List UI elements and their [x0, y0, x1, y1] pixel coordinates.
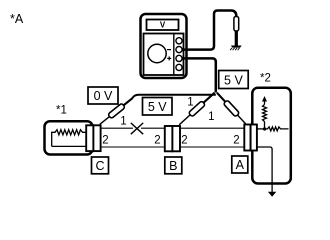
svg-text:*1: *1: [56, 105, 67, 117]
svg-text:0 V: 0 V: [94, 89, 113, 103]
wire negative lead from terminal 2 to top-right probe: [182, 11, 236, 50]
wire A pin 2 to ground: [257, 147, 272, 192]
wire A pin 1 to junction: [257, 128, 265, 130]
connector label C box: [92, 157, 109, 174]
connector A: [244, 125, 250, 151]
probe P1 at body ground: [234, 17, 239, 32]
svg-text:V: V: [160, 20, 166, 29]
multimeter panel: [144, 34, 184, 76]
wire B-A pin 1: [181, 127, 245, 129]
wire B-A pin 2: [181, 146, 245, 148]
probe P4 at A pin 1: [217, 93, 235, 113]
svg-text:5 V: 5 V: [148, 100, 167, 114]
plus sign: [167, 57, 171, 59]
multimeter terminal 4: [176, 64, 182, 70]
multimeter terminal 1: [176, 38, 182, 44]
0 V label box: [88, 87, 118, 104]
junction node: [263, 127, 266, 130]
multimeter terminal 3: [176, 55, 182, 61]
multimeter dial: [148, 44, 166, 62]
svg-text:2: 2: [181, 135, 187, 147]
power feed arrow up in *2: [264, 101, 266, 105]
multimeter display: [147, 20, 179, 31]
ground arrow: [268, 192, 276, 197]
svg-text:1: 1: [120, 116, 126, 128]
multimeter U1 body: [141, 14, 187, 78]
svg-text:2: 2: [102, 135, 108, 147]
minus sign: [167, 49, 171, 51]
resistor R1 in *1: [52, 130, 87, 147]
component *2 box: [252, 88, 290, 184]
svg-text:2: 2: [154, 135, 160, 147]
resistor R2 vertical in *2: [263, 105, 267, 122]
probe P3 at B pin 1: [193, 93, 215, 113]
connector B: [165, 126, 173, 151]
5 V label box near B: [143, 98, 173, 116]
svg-text:*2: *2: [260, 73, 271, 85]
svg-text:2: 2: [233, 135, 239, 147]
open-circuit X mark: [131, 123, 143, 134]
resistor R3 horizontal in *2: [265, 127, 289, 131]
connector C: [86, 125, 93, 151]
svg-text:A: A: [236, 158, 245, 172]
svg-text:1: 1: [208, 111, 214, 123]
component *1 box: [45, 121, 93, 154]
wire positive lead from terminal 3 down to junction: [182, 58, 216, 92]
svg-text:C: C: [95, 159, 104, 173]
wire junction to C probe: [132, 95, 216, 99]
body ground symbol: [231, 46, 242, 48]
connector label A box: [232, 156, 248, 173]
wire C-B pin 1 (broken): [101, 127, 133, 129]
svg-text:*A: *A: [10, 12, 24, 26]
probe P2 at C pin 1: [112, 99, 132, 115]
svg-text:B: B: [169, 159, 177, 173]
wire C-B pin 2: [101, 146, 164, 148]
connector label B box: [165, 157, 182, 174]
multimeter terminal 2: [176, 47, 182, 53]
svg-text:5 V: 5 V: [224, 73, 243, 87]
multimeter panel divider: [173, 34, 175, 76]
svg-text:1: 1: [187, 97, 193, 109]
5 V label box near A: [219, 71, 249, 89]
